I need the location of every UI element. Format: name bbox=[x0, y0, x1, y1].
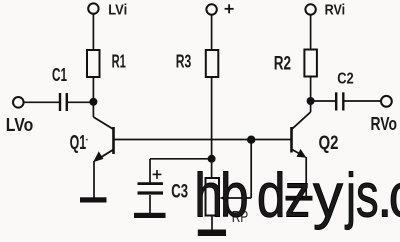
capacitor C3 polarity + bbox=[153, 170, 162, 179]
svg-text:z: z bbox=[285, 162, 311, 231]
terminal RVo bbox=[381, 96, 392, 107]
terminal LVo bbox=[13, 97, 24, 108]
emitter lead with arrow bbox=[292, 150, 305, 157]
label + bbox=[225, 4, 234, 13]
collector lead bbox=[92, 102, 94, 117]
base bar bbox=[112, 127, 115, 154]
wire LVi to R1 bbox=[92, 14, 94, 50]
svg-text:R1: R1 bbox=[112, 51, 126, 72]
ground (C3) bbox=[134, 213, 166, 218]
svg-text:LVi: LVi bbox=[108, 2, 127, 19]
base bar bbox=[290, 127, 293, 153]
wire R3 to node B (crosses base line) bbox=[211, 77, 213, 159]
ground (Q1 emitter) bbox=[80, 197, 107, 202]
capacitor C1 bbox=[60, 93, 67, 111]
node C junction dot on base line bbox=[247, 136, 255, 144]
wire base line Q1 to Q2 bbox=[114, 139, 292, 141]
wire C2 to RVo bbox=[345, 100, 382, 102]
ground (Q2 emitter) bbox=[286, 196, 313, 201]
terminal + supply bbox=[206, 4, 216, 14]
node A junction dot bbox=[89, 98, 97, 106]
node B junction dot bbox=[208, 155, 216, 163]
wire C3 to ground bbox=[149, 195, 151, 213]
svg-text:d: d bbox=[257, 162, 286, 231]
svg-text:C1: C1 bbox=[52, 64, 67, 85]
potentiometer RP bbox=[206, 178, 220, 216]
wire R1 to node A bbox=[92, 77, 94, 102]
svg-text:RVi: RVi bbox=[325, 2, 346, 19]
wire LVo to C1 bbox=[24, 101, 59, 103]
svg-text:js: js bbox=[345, 162, 379, 231]
wire R2 to node D bbox=[310, 77, 312, 102]
capacitor C3 bbox=[138, 184, 164, 193]
resistor R2 bbox=[304, 50, 317, 77]
transistor Q1 bbox=[93, 102, 113, 198]
wire node B to RP bbox=[211, 159, 213, 178]
svg-text:Q1: Q1 bbox=[70, 132, 87, 154]
wire + to R3 bbox=[211, 15, 213, 50]
svg-text:b: b bbox=[220, 162, 249, 231]
transistor Q2 bbox=[292, 101, 311, 197]
svg-text:C2: C2 bbox=[337, 71, 354, 88]
svg-text:Q2: Q2 bbox=[319, 133, 339, 154]
wire C1 to node A bbox=[68, 101, 93, 103]
svg-text:C3: C3 bbox=[171, 182, 188, 203]
svg-text:c: c bbox=[389, 162, 400, 231]
wire RVi to R2 bbox=[310, 15, 312, 50]
wire RP to ground bbox=[211, 216, 213, 230]
svg-text:R2: R2 bbox=[274, 52, 291, 74]
resistor R3 bbox=[206, 50, 219, 77]
RP wiper arrow bbox=[219, 195, 251, 202]
collector lead bbox=[310, 101, 312, 112]
svg-text:R3: R3 bbox=[176, 51, 192, 72]
noise speck after Q1 bbox=[86, 139, 88, 141]
capacitor C2 bbox=[336, 92, 343, 110]
emitter lead with arrow bbox=[96, 150, 113, 161]
svg-text:h: h bbox=[194, 162, 223, 231]
wire node B to C3 bbox=[150, 158, 212, 160]
wire node C down to RP wiper bbox=[250, 140, 252, 198]
wire node D to C2 bbox=[311, 100, 335, 102]
terminal RVi bbox=[305, 4, 315, 14]
svg-text:LVo: LVo bbox=[6, 114, 34, 135]
watermark hbdzyjs.c bbox=[194, 162, 400, 231]
svg-text:y: y bbox=[313, 162, 343, 231]
ground (RP) bbox=[198, 230, 226, 237]
resistor R1 bbox=[87, 50, 100, 77]
node D junction dot bbox=[307, 97, 315, 105]
svg-text:RVo: RVo bbox=[371, 114, 398, 134]
wire down to C3 top plate bbox=[149, 159, 151, 184]
terminal LVi bbox=[88, 3, 98, 13]
